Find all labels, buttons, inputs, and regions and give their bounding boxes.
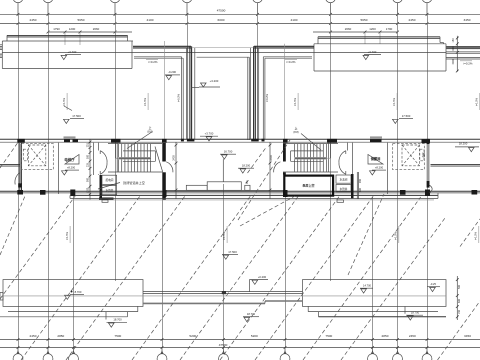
top tier-2 dimension right <box>313 31 398 33</box>
small rooms left core <box>100 175 103 198</box>
svg-text:i=0.2%: i=0.2% <box>149 60 158 64</box>
ramp triangle glyph right <box>368 155 383 165</box>
svg-text:18.200: 18.200 <box>242 164 251 168</box>
stair right top edge <box>283 143 338 145</box>
svg-text:+3.700: +3.700 <box>205 132 214 136</box>
left roof block outline <box>2 40 133 42</box>
bottom dimension line 2 <box>0 347 480 349</box>
svg-text:2450: 2450 <box>30 334 37 338</box>
svg-text:2450: 2450 <box>30 18 37 22</box>
stair left arrow <box>127 132 153 149</box>
svg-text:+8.200: +8.200 <box>67 166 76 170</box>
extension line x164.5 <box>164 41 166 139</box>
svg-text:5650: 5650 <box>361 18 368 22</box>
center rear thick wall right <box>254 45 314 47</box>
svg-text:225: 225 <box>86 162 89 167</box>
svg-text:7500: 7500 <box>114 334 121 338</box>
left margin brackets <box>0 44 2 46</box>
courtyard shaft verticals <box>247 57 249 140</box>
dashed diagonal B <box>21 196 140 360</box>
svg-text:2400: 2400 <box>173 155 176 161</box>
dashed diagonal F <box>220 197 339 360</box>
svg-text:5200: 5200 <box>189 334 196 338</box>
svg-text:500: 500 <box>86 154 89 159</box>
top tier-2 dimension left <box>48 31 132 33</box>
dashed diagonal D <box>132 196 250 360</box>
left annex notch <box>0 293 3 301</box>
top dimension line 1 <box>0 13 480 15</box>
svg-text:(8.8): (8.8) <box>293 130 298 134</box>
right annex offset lines <box>308 311 438 313</box>
svg-text:220: 220 <box>86 143 89 148</box>
slope label i=0.2% right <box>285 58 297 60</box>
pump room thick black walls <box>284 176 333 196</box>
stair right flight treads <box>294 144 296 157</box>
level marker 8.700 left strip <box>71 291 73 293</box>
annex interior line <box>3 295 446 297</box>
svg-text:i=1.5%: i=1.5% <box>293 97 297 106</box>
left core duct walls <box>93 143 95 175</box>
svg-text:+3.700: +3.700 <box>68 50 77 54</box>
stair right arrow <box>301 134 321 151</box>
grid line vertical x115 <box>115 14 117 281</box>
svg-text:17.500: 17.500 <box>402 114 411 118</box>
canopy outline south <box>69 195 71 198</box>
grid line vertical x397.5 <box>397 14 399 348</box>
walkway dark chunk <box>222 291 226 294</box>
courtyard west thick wall <box>189 46 191 139</box>
east double wall line <box>431 164 480 166</box>
canopy notch left <box>102 200 108 202</box>
dashed diagonal L <box>438 301 480 360</box>
grid line vertical x73.5 <box>73 193 75 348</box>
svg-text:2850: 2850 <box>57 334 64 338</box>
elevator2 shaft dashed boundary <box>393 144 425 170</box>
courtyard inner wall lines left <box>185 48 187 139</box>
stair left flight treads <box>118 144 120 157</box>
svg-text:封闭管道井上空: 封闭管道井上空 <box>123 180 145 185</box>
svg-text:1500: 1500 <box>452 59 455 65</box>
right core east rooms <box>336 175 351 183</box>
top dimension line 2 <box>0 23 480 25</box>
courtyard inner wall lines right <box>256 48 258 139</box>
south wall line lower <box>0 192 480 194</box>
svg-text:-0.25: -0.25 <box>430 282 436 286</box>
svg-text:4100: 4100 <box>291 18 298 22</box>
right roof block outline <box>314 43 446 45</box>
platform step 3 <box>245 185 250 190</box>
column grid bubbles top <box>13 0 23 3</box>
svg-text:i=0.2%: i=0.2% <box>177 93 181 102</box>
dashed diagonal M <box>460 219 480 247</box>
grid line vertical x223.5 <box>223 184 225 348</box>
svg-text:i=1.5%: i=1.5% <box>222 231 226 240</box>
svg-text:水表间: 水表间 <box>340 178 348 182</box>
dashed diagonal A <box>0 196 76 300</box>
svg-text:水管井: 水管井 <box>340 187 348 191</box>
grid line vertical x330.5 <box>330 14 332 281</box>
south wall poche segments <box>17 190 23 195</box>
svg-text:5650: 5650 <box>78 18 85 22</box>
grid line vertical x285 <box>285 194 287 348</box>
svg-text:6000: 6000 <box>218 18 225 22</box>
svg-text:150: 150 <box>452 38 455 43</box>
svg-text:900: 900 <box>359 178 362 183</box>
grid line vertical x257.5 <box>257 14 259 53</box>
elevator counterweight dashed <box>23 149 27 161</box>
column grid bubbles bottom <box>17 348 19 354</box>
arrow left slope <box>64 106 72 111</box>
svg-text:泵房上空: 泵房上空 <box>302 182 314 187</box>
east wall bar <box>427 139 430 144</box>
double door left core <box>99 151 101 154</box>
left roof parapet <box>7 34 128 36</box>
svg-text:储藏间: 储藏间 <box>371 156 381 161</box>
walkway band lines <box>143 291 303 293</box>
roof drain offset left <box>134 56 182 58</box>
svg-text:i=1.5%: i=1.5% <box>394 231 398 240</box>
slope label i=0.2% far right <box>460 60 472 62</box>
svg-text:2850: 2850 <box>382 334 389 338</box>
left core east wall poche <box>162 143 166 162</box>
right annex strip <box>303 280 447 307</box>
left annex offset lines <box>8 311 138 313</box>
dashed diagonal I <box>255 195 374 360</box>
bottom dimension line 1 <box>0 339 480 341</box>
svg-text:i=1.5%: i=1.5% <box>62 97 66 106</box>
stair right east wall <box>328 143 330 172</box>
svg-text:150: 150 <box>458 309 461 314</box>
stair left landing bar <box>119 157 152 159</box>
east wing lines beyond right roof <box>446 46 480 48</box>
slope label i=0.2% left <box>146 58 158 60</box>
left core dim line x90 <box>89 140 91 200</box>
svg-text:配电间: 配电间 <box>106 178 114 182</box>
center rear thick wall left <box>133 45 191 47</box>
svg-text:+3.700: +3.700 <box>368 50 377 54</box>
svg-text:1790: 1790 <box>53 27 60 31</box>
svg-text:1200: 1200 <box>86 187 89 193</box>
svg-text:i=0.2%: i=0.2% <box>287 60 296 64</box>
elevator2 car dashed box with X <box>402 145 420 166</box>
north wall line <box>0 138 480 140</box>
stair left top edge <box>108 143 162 145</box>
right margin vertical dimension lower <box>456 276 458 320</box>
svg-text:18.200: 18.200 <box>459 142 468 146</box>
left core west wall <box>19 143 21 194</box>
elevator shaft dashed boundary <box>22 144 54 170</box>
svg-text:600: 600 <box>452 46 455 51</box>
stair right landing bar <box>295 157 328 159</box>
svg-text:600: 600 <box>458 298 461 303</box>
courtyard rear gray line <box>192 47 254 49</box>
svg-text:18.700: 18.700 <box>113 318 122 322</box>
svg-text:1790: 1790 <box>386 27 393 31</box>
north facade line <box>2 52 446 54</box>
dashed diagonal C <box>66 196 185 360</box>
lobby dim line x270 <box>269 142 271 199</box>
svg-text:600: 600 <box>359 187 362 192</box>
svg-text:+3.200: +3.200 <box>210 79 219 83</box>
svg-text:17.500: 17.500 <box>228 250 237 254</box>
svg-text:1200: 1200 <box>369 27 376 31</box>
stair east niche <box>325 157 330 159</box>
svg-text:i=1.5%: i=1.5% <box>65 231 69 240</box>
svg-text:2400: 2400 <box>270 155 273 161</box>
svg-text:4100: 4100 <box>147 18 154 22</box>
svg-text:i=0.2%: i=0.2% <box>265 93 269 102</box>
svg-text:i=1.5%: i=1.5% <box>474 231 478 240</box>
stair left lower treads <box>118 159 120 171</box>
left core wall x58.5 <box>58 143 60 194</box>
right core west wall poche <box>283 143 286 162</box>
stair west niche <box>116 157 121 159</box>
right core east wall lines <box>356 172 358 199</box>
stair right handrail <box>291 150 323 152</box>
svg-text:i=1.5%: i=1.5% <box>392 97 396 106</box>
courtyard inner line y57.2 <box>197 56 250 58</box>
svg-text:水管井: 水管井 <box>106 189 114 193</box>
stair left bottom edge <box>108 171 162 173</box>
svg-text:+0.200: +0.200 <box>258 275 267 279</box>
roof drain offset right <box>263 56 312 58</box>
canopy hump right <box>370 136 382 138</box>
stair right bottom edge <box>283 171 338 173</box>
stair left west wall <box>116 143 118 172</box>
svg-text:900: 900 <box>86 177 89 182</box>
south wall line upper <box>0 190 480 192</box>
svg-text:8.700: 8.700 <box>75 290 82 294</box>
svg-text:上: 上 <box>295 127 298 131</box>
elevator2 counterweight dashed <box>420 149 424 161</box>
stair left handrail <box>123 150 155 152</box>
grid line vertical x48 <box>48 14 50 348</box>
dashed diagonal steep left edge <box>0 196 25 255</box>
svg-text:16.700: 16.700 <box>224 150 233 154</box>
east door arc <box>430 185 433 192</box>
svg-text:3450: 3450 <box>464 18 471 22</box>
wall poche segments north <box>181 139 184 142</box>
dashed diagonal K <box>341 218 445 360</box>
dashed diagonal E <box>180 197 298 360</box>
platform step 1 <box>186 185 207 190</box>
grid line vertical x372.5 <box>372 197 374 348</box>
right core duct wall <box>351 143 353 174</box>
svg-text:-0.200: -0.200 <box>168 70 176 74</box>
left core west door arc <box>15 173 20 185</box>
dashed diagonal steep mid right <box>348 194 384 275</box>
left annex strip <box>3 280 143 307</box>
svg-text:i=1.5%: i=1.5% <box>143 97 147 106</box>
extension line x284.5 <box>284 44 286 139</box>
grid line vertical x427 <box>427 14 429 348</box>
courtyard east thick wall <box>253 46 255 139</box>
svg-text:2450: 2450 <box>409 18 416 22</box>
dashed diagonal lobby short <box>248 148 267 174</box>
south wall thick line <box>74 194 438 196</box>
svg-text:1200: 1200 <box>69 27 76 31</box>
right core west door arc <box>274 162 281 173</box>
svg-text:7500: 7500 <box>325 334 332 338</box>
lobby dim line x176 <box>175 142 177 199</box>
double door right core <box>345 151 347 154</box>
east wall x387.5 <box>387 143 389 194</box>
canopy notch right <box>337 200 344 202</box>
right roof parapet <box>318 36 440 38</box>
svg-text:47500: 47500 <box>219 343 228 347</box>
dashed diagonal courtyard right <box>238 140 290 220</box>
svg-text:47500: 47500 <box>217 8 226 12</box>
svg-text:电梯: 电梯 <box>422 152 426 158</box>
level marker 18.700 left leader <box>105 312 107 320</box>
level marker 18.700 right with leader <box>404 307 406 314</box>
canopy hump left <box>64 136 76 138</box>
grid line vertical x187 <box>187 14 189 53</box>
right margin vertical dimension upper <box>456 36 458 72</box>
stair left break line <box>155 147 165 179</box>
ramp triangle glyph left <box>65 155 79 165</box>
svg-text:500: 500 <box>458 284 461 289</box>
svg-text:上: 上 <box>149 126 152 130</box>
stair right lower treads <box>294 159 296 171</box>
dashed diagonal to corner block <box>0 143 18 168</box>
dashed diagonal shallow center <box>240 196 295 226</box>
elevator car dashed box with X <box>28 145 46 166</box>
svg-text:17.500: 17.500 <box>72 114 81 118</box>
dashed diagonal J <box>303 197 421 360</box>
svg-text:2660: 2660 <box>345 27 352 31</box>
west stub wall line <box>0 164 20 166</box>
svg-text:+8.200: +8.200 <box>375 166 384 170</box>
svg-text:2450: 2450 <box>409 334 416 338</box>
svg-text:14.700: 14.700 <box>363 284 371 288</box>
svg-text:5200: 5200 <box>251 334 258 338</box>
svg-text:18.700: 18.700 <box>411 311 420 315</box>
svg-text:i=1.5%: i=1.5% <box>475 97 479 106</box>
svg-text:18.700: 18.700 <box>247 312 256 316</box>
svg-text:3450: 3450 <box>464 334 471 338</box>
grid line vertical x18 <box>18 14 20 348</box>
platform step 2 <box>207 182 241 191</box>
svg-text:2660: 2660 <box>93 27 100 31</box>
left core east door arc <box>166 162 173 173</box>
svg-text:i=0.2%: i=0.2% <box>464 61 473 65</box>
south wall inner line lobby <box>166 189 283 191</box>
grid line vertical x162 <box>162 200 164 348</box>
